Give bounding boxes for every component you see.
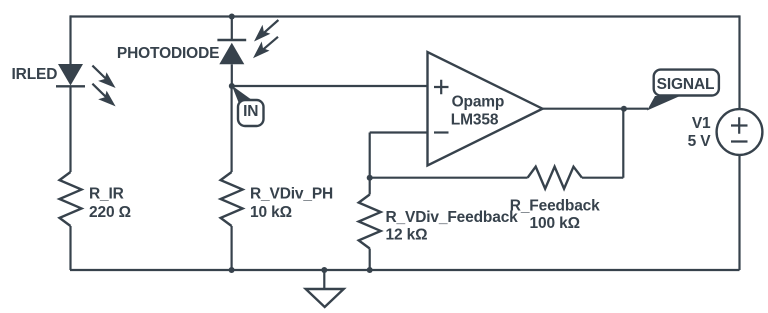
svg-text:Opamp: Opamp <box>452 94 505 111</box>
wire opamp output <box>543 108 649 110</box>
svg-text:100 kΩ: 100 kΩ <box>530 215 580 232</box>
LED D IRLED <box>56 64 116 106</box>
resistor R_Feedback <box>528 167 582 189</box>
svg-text:R_Feedback: R_Feedback <box>510 197 600 214</box>
resistor R_VDiv_PH <box>221 172 243 226</box>
wire R_VDiv_PH to bottom rail <box>231 226 233 270</box>
wire ground stem <box>323 270 325 289</box>
wire minus branch down to feedback node <box>369 133 371 178</box>
svg-text:220 Ω: 220 Ω <box>89 204 131 221</box>
wire R_VDiv_Feedback to bottom rail <box>369 249 371 271</box>
voltage source V1 <box>717 109 763 155</box>
node junction top of photodiode <box>229 14 235 20</box>
wire photodiode to IN node <box>231 64 233 86</box>
resistor R_VDiv_Feedback <box>359 195 381 249</box>
node junction R_VDiv_PH bottom <box>229 267 235 273</box>
ground <box>306 289 344 307</box>
svg-text:IRLED: IRLED <box>12 66 58 83</box>
node SIGNAL callout <box>647 70 719 111</box>
wire IN node to opamp plus input <box>232 85 428 87</box>
svg-text:R_IR: R_IR <box>89 185 124 202</box>
wire bottom rail <box>70 269 740 271</box>
wire R_IR to bottom rail <box>69 226 71 270</box>
wire feedback node to R_VDiv_Feedback <box>369 178 371 195</box>
wire photodiode branch from top rail <box>231 17 233 41</box>
wire top rail left <box>70 15 232 17</box>
svg-text:IN: IN <box>243 103 258 120</box>
wire V1 to bottom rail <box>738 155 740 271</box>
wire top rail right <box>232 15 740 17</box>
wire opamp minus input <box>370 131 428 133</box>
wire right branch top to V1 <box>738 15 740 109</box>
wire left branch to IRLED anode <box>69 15 71 64</box>
svg-text:R_VDiv_PH: R_VDiv_PH <box>250 185 333 202</box>
svg-text:12 kΩ: 12 kΩ <box>386 227 428 244</box>
node junction ground <box>321 267 327 273</box>
node junction output SIGNAL <box>621 106 627 112</box>
photodiode D PHOTODIODE <box>217 20 278 64</box>
node junction IN <box>229 83 235 89</box>
wire IN node down to R_VDiv_PH <box>231 86 233 172</box>
svg-text:PHOTODIODE: PHOTODIODE <box>117 45 219 62</box>
svg-text:SIGNAL: SIGNAL <box>657 76 715 93</box>
svg-text:10 kΩ: 10 kΩ <box>250 204 292 221</box>
resistor R_IR <box>60 172 82 226</box>
svg-text:LM358: LM358 <box>451 112 499 129</box>
wire R_Feedback to output branch <box>582 177 623 179</box>
svg-text:R_VDiv_Feedback: R_VDiv_Feedback <box>386 209 519 226</box>
wire output branch up <box>622 109 624 178</box>
wire IRLED cathode to R_IR <box>69 86 71 172</box>
svg-text:5 V: 5 V <box>688 133 712 150</box>
svg-text:V1: V1 <box>692 115 711 132</box>
node junction feedback <box>367 175 373 181</box>
wire feedback node to R_Feedback <box>370 177 528 179</box>
node IN callout <box>232 86 264 127</box>
op-amp U1 LM358 <box>428 52 543 166</box>
node junction R_VDiv_Feedback bottom <box>367 267 373 273</box>
